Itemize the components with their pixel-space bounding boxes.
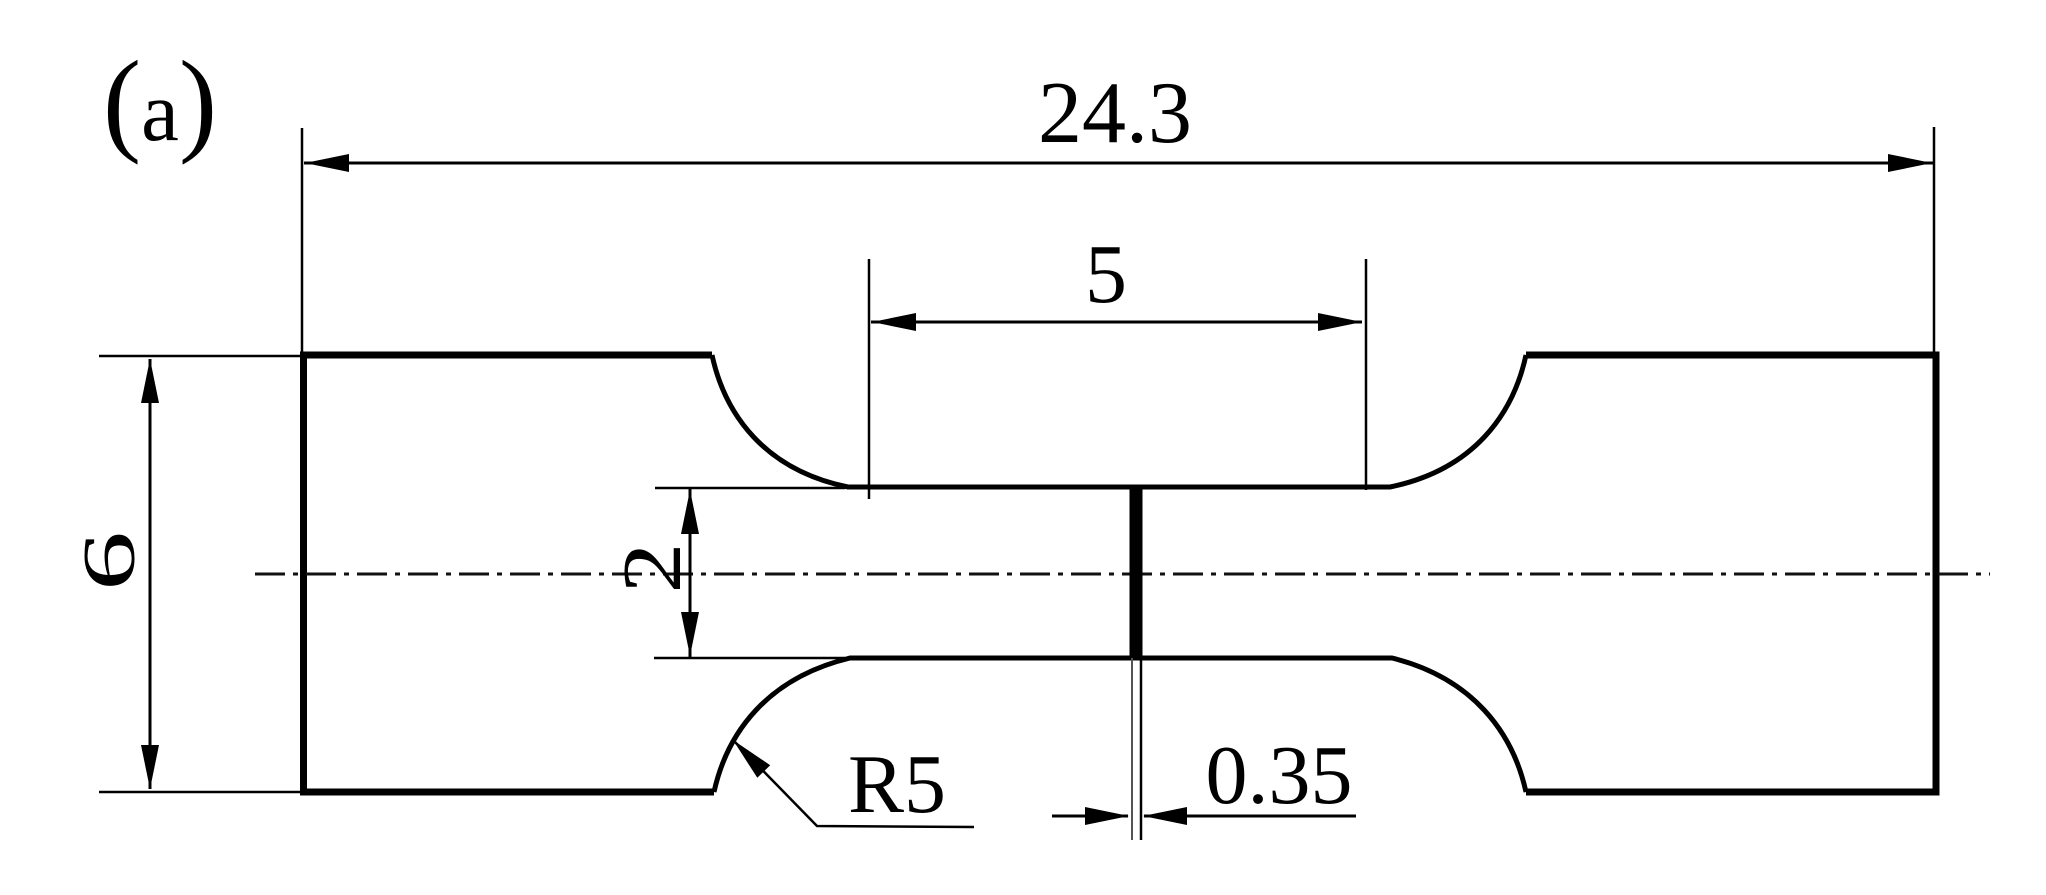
svg-text:6: 6 [69, 531, 151, 591]
svg-text:5: 5 [1085, 228, 1127, 321]
svg-text:0.35: 0.35 [1206, 729, 1353, 822]
svg-text:(a): (a) [103, 38, 217, 165]
svg-text:24.3: 24.3 [1038, 65, 1192, 162]
svg-text:2: 2 [606, 543, 699, 594]
svg-text:R5: R5 [848, 738, 946, 831]
